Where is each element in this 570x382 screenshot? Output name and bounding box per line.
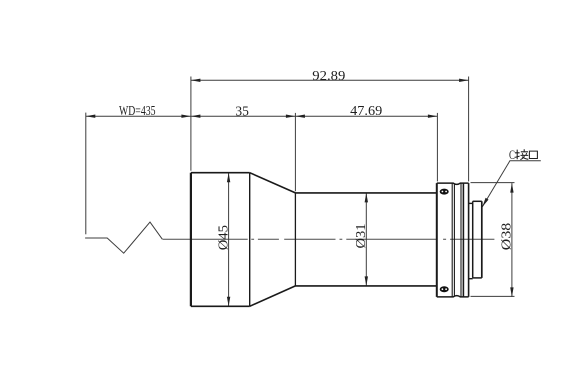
svg-text:Ø38: Ø38: [500, 223, 515, 251]
svg-text:Ø45: Ø45: [216, 225, 231, 250]
leader: C-mount callout: [482, 161, 541, 207]
rear flange Ø38: [437, 183, 469, 297]
wire: extension line at body front x=190.9: [190, 77, 192, 171]
glyph 接 (right part 立+女): [520, 149, 528, 159]
svg-text:92.89: 92.89: [312, 69, 345, 84]
svg-text:47.69: 47.69: [350, 104, 382, 119]
middle cylinder Ø31: [295, 193, 436, 286]
lens body: front cylinder Ø45: [191, 173, 250, 307]
screw top: [440, 189, 449, 195]
dimension Ø38 (vertical, right): [471, 182, 515, 184]
glyph 口: [529, 151, 537, 158]
screw bottom: [440, 286, 449, 292]
svg-text:C: C: [509, 148, 515, 162]
glyph 接 (hand radical): [515, 150, 520, 160]
dimension 92.89: [191, 79, 469, 81]
wire: extension line at 47.69 right: [436, 113, 438, 181]
svg-text:35: 35: [235, 104, 249, 119]
svg-text:Ø31: Ø31: [354, 224, 369, 249]
dimension Ø31 (vertical): [365, 193, 367, 286]
dimension WD=435: [86, 115, 191, 117]
cone transition: [250, 173, 296, 307]
wire: extension line WD left: [85, 113, 87, 235]
centerline (long-short dash axis): [163, 238, 495, 240]
C-mount thread cylinder: [473, 201, 482, 278]
svg-text:WD=435: WD=435: [119, 104, 156, 119]
dimension 47.69: [295, 115, 437, 117]
dimension Ø45 (vertical): [228, 173, 230, 307]
wire: extension line at body rear x=468.6: [468, 77, 470, 182]
dimension 35: [191, 115, 296, 117]
wire: extension line at 35/47.69 boundary: [294, 113, 296, 191]
break line (object plane zigzag): [85, 222, 162, 253]
C-mount step ring: [469, 203, 473, 278]
